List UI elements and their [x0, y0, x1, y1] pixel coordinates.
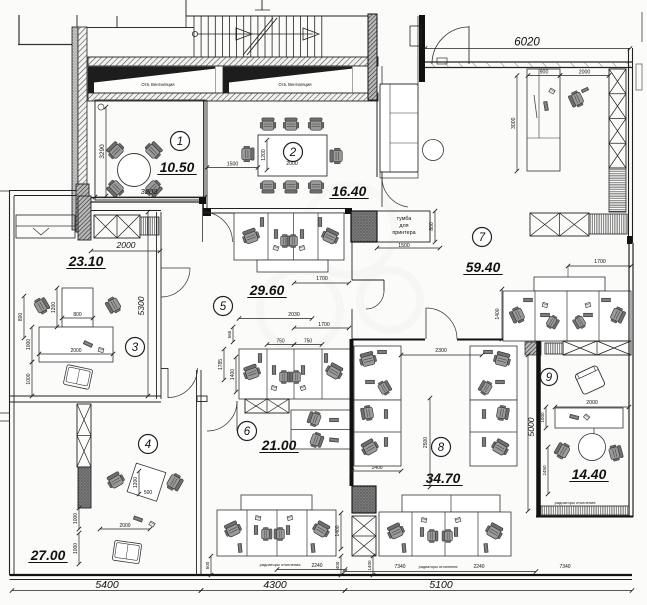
room 6 upper desk cluster [239, 349, 350, 399]
svg-text:3: 3 [132, 342, 139, 354]
lobby wall line [417, 16, 419, 100]
svg-text:для: для [399, 223, 408, 229]
room 2 chair right [330, 148, 342, 164]
svg-text:59.40: 59.40 [466, 260, 501, 275]
svg-text:3000: 3000 [511, 117, 517, 129]
wall top-right corner [419, 15, 425, 82]
room 3 hatched wall column [78, 196, 91, 240]
svg-text:1500: 1500 [227, 162, 239, 168]
svg-text:400: 400 [335, 561, 340, 569]
room 1 bottom wall [88, 197, 205, 199]
room 3 chair right [104, 296, 122, 316]
room 2 chair left [242, 146, 254, 162]
room 3 / room 4 divider wall [10, 395, 162, 397]
dim 1700 room5 [294, 282, 349, 284]
svg-text:1400: 1400 [230, 369, 236, 380]
stair walk line with arrows [192, 31, 197, 36]
room 5 shared table [257, 260, 328, 272]
svg-text:1400: 1400 [367, 560, 372, 571]
room 9 dim 2000 [555, 406, 629, 408]
svg-text:800: 800 [18, 313, 24, 322]
room 4 dims [138, 471, 140, 494]
room 6 xbox cabinet [245, 399, 289, 413]
room 4 sofa [112, 540, 142, 564]
room 4 desk [127, 463, 166, 501]
svg-text:1700: 1700 [318, 322, 330, 328]
dim 1500 room2 [207, 167, 258, 169]
room 7 right radiator [609, 168, 626, 212]
svg-text:2500: 2500 [423, 437, 429, 448]
dim 800 printer [434, 211, 436, 242]
room 9 armchair [574, 365, 605, 395]
dim 1500 printer [377, 247, 440, 249]
room 7 bottom shared table [534, 277, 605, 291]
svg-text:принтера: принтера [392, 230, 415, 236]
wall step [197, 396, 207, 402]
room 5 desk row top [234, 213, 344, 260]
dimension 6020 [425, 48, 630, 50]
svg-text:3290: 3290 [99, 144, 106, 159]
room 7 number [473, 228, 492, 247]
room 9 bottom radiator [541, 506, 629, 515]
room 8 number [432, 438, 451, 457]
svg-text:2300: 2300 [435, 348, 447, 354]
svg-text:1000: 1000 [26, 339, 32, 350]
room 2 bottom wall [205, 208, 345, 210]
dim 3290 [105, 107, 107, 196]
svg-text:1400: 1400 [335, 525, 341, 536]
room 4 desk lower items [133, 516, 143, 522]
room 9 left wall [536, 341, 541, 516]
watermark [260, 185, 420, 350]
svg-text:2030: 2030 [288, 312, 300, 318]
room7/room8 divider wall [352, 339, 425, 341]
room 9 radiator top [545, 343, 563, 354]
wall stub below entrance [381, 66, 383, 100]
svg-text:5000: 5000 [526, 417, 536, 436]
bottom dimension line [12, 590, 201, 592]
door sensor detail [98, 104, 104, 110]
room 8 bottom dims [372, 556, 374, 575]
printer cabinet label box [377, 211, 430, 242]
door room 3 (in right wall) [161, 267, 190, 269]
tick marks top-center [185, 0, 187, 16]
room 6 bottom desk row [217, 510, 336, 556]
room 6 number [238, 422, 257, 441]
svg-text:2000: 2000 [116, 240, 136, 250]
room 2 chairs bottom [260, 181, 276, 193]
left outside balcony marks [0, 412, 9, 414]
svg-text:8: 8 [438, 442, 445, 454]
room 7 top workstation chair [567, 90, 585, 109]
svg-text:Отв. Вентиляция: Отв. Вентиляция [278, 82, 311, 87]
svg-text:29.60: 29.60 [249, 283, 285, 298]
svg-text:1400: 1400 [495, 308, 501, 319]
room 3 sofa [63, 365, 93, 390]
svg-text:2000: 2000 [286, 161, 298, 167]
dim 2000 room3 [91, 250, 160, 252]
room 1 chairs [105, 140, 126, 161]
door to room 6 [236, 401, 238, 431]
dim 5300 [147, 212, 149, 396]
svg-text:радиаторы отопления: радиаторы отопления [555, 500, 596, 505]
room 5 dims [239, 318, 312, 320]
room 1 round table [118, 154, 151, 187]
svg-text:565: 565 [227, 330, 232, 338]
corridor jog walls [351, 242, 353, 280]
svg-text:радиаторы отопления: радиаторы отопления [419, 565, 458, 569]
room 3 top radiator [140, 217, 159, 235]
room 8 dark radiator box [352, 486, 376, 513]
door to room 8 [425, 308, 427, 339]
room 3 chair left [33, 296, 51, 316]
svg-text:800: 800 [429, 222, 435, 231]
dim 1200 room2 [266, 140, 268, 170]
room 9 desk [555, 408, 623, 428]
room 4 number [139, 435, 158, 454]
room 3 wardrobe [16, 215, 75, 238]
svg-text:500: 500 [144, 490, 153, 496]
svg-text:1200: 1200 [261, 149, 267, 161]
svg-text:750: 750 [276, 339, 285, 345]
room 9 bottom wall [536, 516, 633, 518]
room 7 radiator row [589, 214, 627, 234]
svg-text:1700: 1700 [316, 276, 328, 282]
svg-text:1200: 1200 [51, 302, 57, 313]
room 2 chairs top [260, 118, 276, 130]
room 7 bottom desk row [503, 291, 631, 341]
svg-text:23.10: 23.10 [68, 254, 104, 269]
wall junction block top [199, 197, 206, 204]
entrance door arc [468, 26, 470, 64]
svg-text:5400: 5400 [95, 579, 119, 591]
svg-text:2: 2 [289, 147, 297, 159]
room 8 right desk column [470, 346, 517, 400]
svg-text:1200: 1200 [133, 477, 139, 488]
svg-text:6: 6 [244, 426, 251, 438]
room 3 number [126, 338, 145, 357]
room 1 walls [95, 100, 205, 200]
svg-text:1700: 1700 [594, 259, 606, 265]
svg-text:4300: 4300 [263, 579, 287, 591]
wall hatched band below stairs [88, 57, 378, 66]
room 3 desk lower [39, 327, 113, 362]
room 9 number [541, 369, 558, 386]
room 1 number [171, 132, 190, 151]
room 2 number [284, 143, 303, 162]
svg-text:16.40: 16.40 [332, 184, 367, 199]
svg-text:500: 500 [205, 561, 210, 569]
svg-text:2450: 2450 [542, 465, 547, 476]
svg-text:7: 7 [479, 232, 486, 244]
svg-text:4: 4 [145, 439, 151, 451]
right edge marks [641, 12, 643, 42]
room 7 sofa [380, 84, 418, 178]
svg-text:2000: 2000 [70, 348, 81, 354]
bottom outer wall [10, 574, 633, 576]
dimension 900 / 2000 top right [528, 75, 560, 77]
room 4 chairs [105, 470, 126, 489]
svg-text:тумба: тумба [397, 216, 412, 222]
printer cabinet dark box [351, 211, 377, 242]
room 9 xbox top row [563, 341, 631, 355]
right outer wall upper [628, 48, 630, 243]
room 3 dims [23, 296, 25, 338]
svg-text:21.00: 21.00 [261, 438, 297, 453]
svg-text:5100: 5100 [429, 579, 453, 591]
stairwell outline [186, 15, 377, 17]
svg-text:5: 5 [220, 301, 227, 313]
svg-text:10.50: 10.50 [160, 160, 195, 175]
room 8 left wall [350, 339, 354, 486]
room 2 conference table [258, 135, 327, 176]
corridor door to room 5 (top) [202, 203, 204, 242]
svg-text:6020: 6020 [514, 37, 540, 49]
svg-text:1: 1 [177, 136, 183, 148]
room 9 round table [579, 434, 606, 461]
room 7 coffee table [423, 140, 444, 161]
room 4 column xbox [77, 404, 91, 467]
right outer wall lower [628, 243, 630, 517]
room 8 dims [401, 354, 482, 356]
svg-text:900: 900 [540, 70, 549, 76]
room 8 xbox column [352, 516, 376, 556]
room 3 desk upper [62, 288, 93, 327]
svg-text:радиаторы отопления: радиаторы отопления [260, 562, 301, 567]
svg-text:1785: 1785 [218, 359, 224, 370]
room 7 counter items [543, 101, 548, 110]
dim 1400 room8 left [352, 470, 401, 472]
svg-text:34.70: 34.70 [426, 471, 461, 486]
window wall top right [425, 61, 632, 63]
svg-text:9: 9 [546, 372, 553, 384]
stair treads [193, 16, 195, 57]
vent panel right [223, 67, 352, 93]
room 8 bottom desk row [379, 512, 511, 556]
stair break line [243, 18, 273, 55]
room 6 bottom dims [210, 556, 212, 575]
room 7 xbox row [530, 213, 589, 236]
svg-text:7340: 7340 [394, 564, 405, 570]
room 7 door arc from lobby [382, 177, 408, 207]
svg-text:1000: 1000 [73, 513, 79, 524]
room 7 wardrobe counter [527, 69, 560, 171]
room 9 dims [547, 447, 549, 494]
svg-text:2240: 2240 [311, 563, 322, 569]
svg-text:3200: 3200 [141, 187, 159, 196]
room1/room2 divider wall [203, 100, 205, 213]
svg-text:1000: 1000 [26, 373, 32, 384]
room 4 radiator dark [78, 467, 91, 508]
svg-text:750: 750 [304, 339, 313, 345]
corridor jog door arc [366, 291, 384, 309]
svg-text:5300: 5300 [136, 296, 146, 315]
vent panel left [88, 67, 215, 93]
svg-text:2000: 2000 [586, 400, 598, 406]
room 8 bottom shared table [402, 495, 500, 512]
svg-text:800: 800 [73, 312, 82, 318]
wall black end [627, 236, 632, 244]
svg-text:Отв. Вентиляция: Отв. Вентиляция [141, 82, 174, 87]
room 8 left desk column [354, 346, 401, 400]
wall junction blocks [203, 208, 211, 216]
dimension 3000 vertical [516, 76, 518, 172]
room 2 right wall [376, 66, 378, 177]
room 3 top outer wall [10, 190, 77, 192]
room 9 table chairs [553, 441, 571, 461]
svg-text:7340: 7340 [559, 564, 570, 570]
svg-text:27.00: 27.00 [30, 548, 66, 563]
left outer wall (hatched) [72, 27, 78, 230]
tick marks top-left [18, 15, 20, 44]
room 6 bottom shared table [241, 495, 312, 510]
left outer wall room3 [9, 190, 11, 575]
room 7 right xbox column [609, 69, 626, 168]
svg-text:2000: 2000 [119, 523, 130, 529]
svg-text:2240: 2240 [473, 564, 484, 570]
room 6 side desks [291, 410, 350, 449]
wall hatched band above room 1-2 [88, 93, 378, 101]
room 5 number [214, 297, 233, 316]
room 9 hatch block [525, 342, 541, 355]
dim 1700 room 7 [568, 265, 631, 267]
door corridor lower [167, 368, 169, 398]
svg-text:2000: 2000 [579, 70, 591, 76]
stairwell right wall [368, 14, 377, 100]
room 4 right wall [196, 370, 198, 575]
svg-text:1000: 1000 [73, 543, 79, 554]
room 3 top cabinet xbox [94, 215, 140, 238]
svg-text:1000: 1000 [540, 412, 545, 423]
room 3 right wall [156, 212, 158, 399]
svg-text:1500: 1500 [398, 243, 410, 249]
svg-text:14.40: 14.40 [572, 467, 607, 482]
